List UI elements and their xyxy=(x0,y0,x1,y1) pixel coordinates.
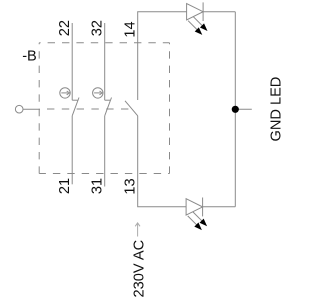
LED D1 emission arrow shafts xyxy=(193,17,202,26)
svg-text:21: 21 xyxy=(57,178,73,194)
wire terminal 13 to LED2 xyxy=(138,116,186,207)
LED D2 emission arrow shafts xyxy=(193,212,202,221)
plunger terminal circle xyxy=(15,105,23,113)
junction node GND LED xyxy=(232,106,239,113)
LED D2 cathode bar xyxy=(202,198,204,217)
actuator symbol U2 (circle with arrow) xyxy=(93,88,103,98)
wire LED D1 to right bus xyxy=(203,11,235,13)
wire LED D2 to right bus xyxy=(203,206,236,208)
LED D1 body xyxy=(187,4,204,20)
supply arrow 230V AC xyxy=(135,223,140,237)
mechanical actuation link (dashed) xyxy=(40,108,133,110)
svg-text:32: 32 xyxy=(90,20,106,36)
NC contact seat (32-31) xyxy=(105,99,110,101)
wire terminal 21 xyxy=(71,116,73,185)
LED D2 body xyxy=(186,199,203,215)
wire terminal 22 xyxy=(71,23,73,100)
svg-text:14: 14 xyxy=(123,21,139,37)
wire terminal 14 to LED1 xyxy=(138,12,187,100)
NO contact blade (13-14) xyxy=(125,101,138,116)
LED D2 emission arrowheads xyxy=(194,219,207,230)
wire terminal 32 xyxy=(104,23,106,100)
right bus wire xyxy=(234,12,236,207)
enclosure boundary -B (dashed box) xyxy=(39,43,169,174)
svg-text:22: 22 xyxy=(57,20,73,36)
svg-text:13: 13 xyxy=(123,178,139,194)
LED D1 emission arrowheads xyxy=(195,23,208,34)
NC contact seat (22-21) xyxy=(72,99,77,101)
svg-text:230V AC: 230V AC xyxy=(131,240,147,298)
wire stub to GND LED node xyxy=(235,108,252,110)
NC contact blade (32-31) xyxy=(105,98,112,116)
wire terminal 31 xyxy=(104,116,106,187)
NC contact blade (22-21) xyxy=(72,98,79,116)
LED D1 cathode bar xyxy=(202,2,204,21)
svg-text:-B: -B xyxy=(22,48,37,64)
svg-text:GND LED: GND LED xyxy=(269,77,285,142)
actuator symbol U1 (circle with arrow) xyxy=(60,88,70,98)
wire plunger to enclosure xyxy=(23,108,40,110)
svg-text:31: 31 xyxy=(90,178,106,194)
